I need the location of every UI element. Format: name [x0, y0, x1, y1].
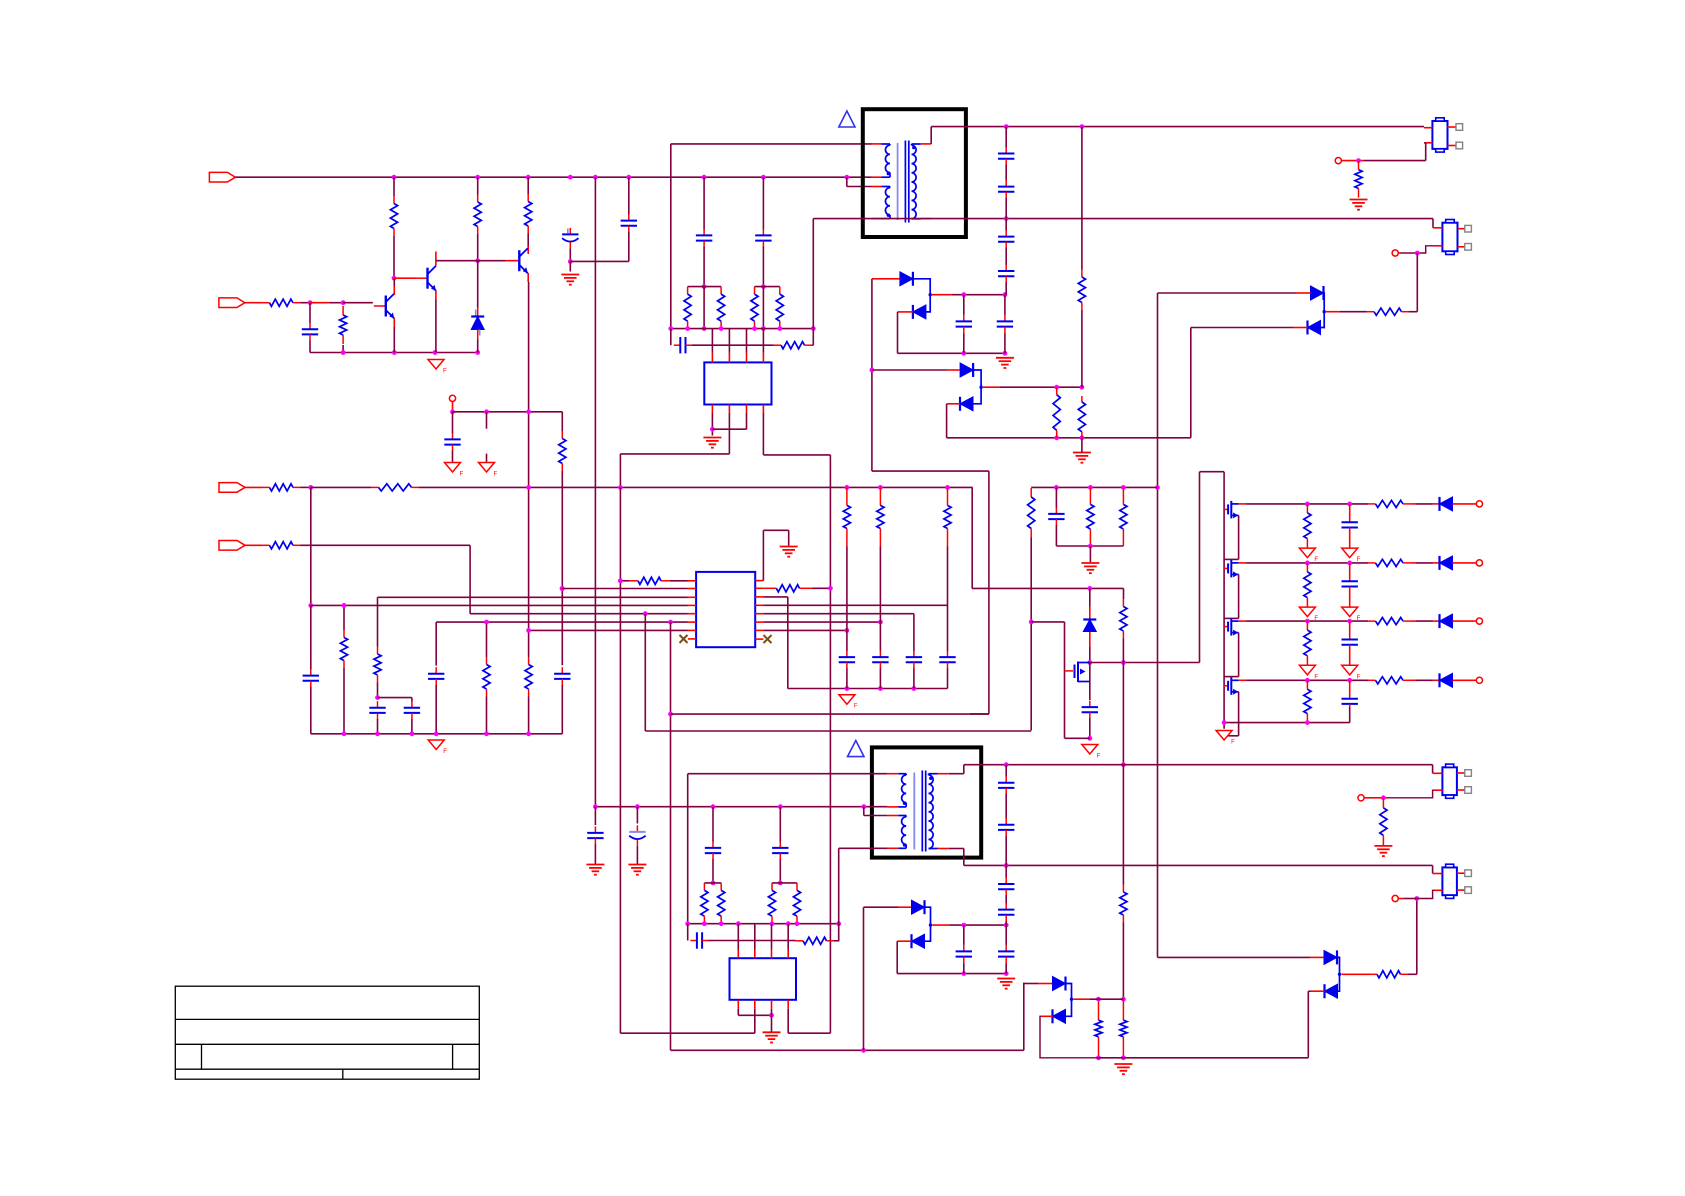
wire node: [1000, 386, 1082, 388]
diode: [1440, 614, 1453, 628]
pin U3.1t: [737, 950, 739, 958]
wire stack2: [1005, 794, 1007, 819]
power ground F: [1299, 548, 1318, 563]
resistor R42: [796, 937, 835, 944]
wire: [1411, 620, 1417, 622]
wire: [477, 234, 479, 261]
wire: [393, 278, 395, 286]
svg-text:F: F: [494, 472, 498, 478]
junction net1: [761, 175, 766, 180]
pin CN3 sq1: [1457, 772, 1465, 774]
capacitor C21: [554, 667, 570, 685]
pin cap: [1349, 680, 1351, 695]
wire stack2: [1005, 895, 1007, 903]
power ground F: [445, 463, 464, 478]
wire row6L: [436, 621, 688, 623]
pin CN3.1: [1433, 772, 1443, 774]
capacitor C25: [906, 651, 922, 669]
pin U2.L5: [688, 613, 696, 615]
wire x687 to bus: [687, 774, 689, 924]
wire bar R2: [772, 882, 797, 884]
resistor R32: [1028, 488, 1035, 538]
wire net1 main: [235, 176, 871, 178]
wire D5 feed: [1158, 292, 1297, 294]
wire CN1 pin2: [1424, 142, 1426, 144]
wire: [712, 859, 714, 883]
junction: [1054, 435, 1059, 440]
wire: [636, 807, 638, 824]
transformer T1 windings: [882, 141, 921, 223]
junction: [392, 350, 397, 355]
wire row: [1246, 679, 1368, 681]
wire: [411, 719, 413, 734]
wire: [1199, 472, 1201, 663]
resistor R44: [1380, 798, 1387, 846]
wire: [711, 329, 713, 353]
wire row5R: [763, 613, 914, 615]
wire: [378, 697, 412, 699]
capacitor C15: [998, 230, 1014, 248]
junction: [308, 300, 313, 305]
wire: [1089, 588, 1091, 606]
wire source loop2: [1224, 735, 1239, 737]
wire row: [1246, 562, 1368, 564]
resistor: [1368, 677, 1411, 684]
wire: [1404, 898, 1417, 900]
wire: [963, 295, 965, 315]
capacitor C35: [998, 945, 1014, 963]
wire: [1308, 990, 1310, 992]
terminal circle: [449, 395, 455, 401]
diode pair link: [925, 907, 931, 941]
wire stub2: [486, 454, 488, 462]
pin T1.3: [872, 186, 882, 188]
wire stack2: [1005, 765, 1007, 777]
wire: [712, 428, 746, 430]
wire: [703, 247, 705, 287]
wire: [628, 232, 630, 262]
wire: [300, 302, 310, 304]
connector CN3: [1442, 764, 1457, 798]
resistor R27: [629, 577, 670, 584]
wire: [737, 1009, 739, 1016]
wire: [1425, 143, 1427, 161]
junction: [912, 686, 917, 691]
pin D8 anode: [1089, 632, 1091, 647]
wire node out: [1073, 998, 1090, 1000]
wire: [896, 941, 898, 973]
wire source loop: [1238, 515, 1240, 559]
wire to circle: [1398, 898, 1404, 900]
wire: [897, 312, 899, 353]
wire: [1364, 160, 1426, 162]
junction: [961, 292, 966, 297]
wire y1050: [671, 1049, 1024, 1051]
pin CN3.2: [1435, 789, 1443, 791]
junction: [308, 603, 313, 608]
wire: [301, 486, 311, 488]
transistor Q3: [507, 248, 528, 273]
junction: [1003, 351, 1008, 356]
wire source loop: [1238, 574, 1240, 618]
capacitor C11: [956, 315, 972, 333]
wire x620 mid: [619, 487, 621, 1033]
pin U3.3b: [771, 1000, 773, 1009]
wire: [728, 413, 730, 454]
wire drive rail: [1031, 486, 1157, 488]
wire: [779, 807, 781, 842]
pin U2.R4: [755, 604, 763, 606]
pin D17 cathode: [1311, 990, 1325, 992]
pin diode: [1433, 620, 1440, 622]
wire: [452, 451, 454, 462]
wire: [620, 580, 629, 582]
power ground F: [839, 695, 858, 710]
wire: [963, 333, 965, 353]
pin U1.4t: [762, 353, 764, 363]
wire jog T1 pin3 h: [847, 186, 872, 188]
wire row3R: [763, 596, 787, 598]
earth ground: [703, 438, 721, 448]
pin D2 cathode: [898, 311, 913, 313]
capacitor C27: [1048, 507, 1064, 525]
wire: [561, 471, 563, 665]
junction: [1305, 619, 1310, 624]
wire stack2: [1005, 921, 1007, 925]
wire T2 p1 feed: [688, 773, 888, 775]
pin D3 anode: [947, 369, 960, 371]
diode D8: [1083, 620, 1096, 632]
pin U2.R3: [755, 596, 763, 598]
wire: [703, 287, 705, 329]
junction: [1347, 502, 1352, 507]
junction: [433, 350, 438, 355]
wire: [762, 287, 764, 329]
junction: [1004, 971, 1009, 976]
junction bus2: [770, 921, 775, 926]
resistor R9: [684, 287, 691, 329]
junction bus: [526, 731, 531, 736]
wire x813: [812, 219, 814, 346]
wire: [670, 580, 688, 582]
pin U3.4t: [787, 950, 789, 958]
junction row2L: [560, 586, 565, 591]
wire: [477, 261, 479, 308]
wire: [1416, 503, 1433, 505]
wire jog p3: [863, 807, 865, 816]
wire: [1123, 588, 1125, 599]
resistor R7: [262, 299, 301, 306]
transformer T2 box: [872, 747, 981, 857]
mosfet Q9: [1224, 677, 1239, 695]
capacitor C31: [705, 841, 721, 859]
wire: [1081, 310, 1083, 387]
junction: [711, 804, 716, 809]
pin CN4 sq2: [1457, 889, 1465, 891]
earth ground: [628, 865, 646, 875]
wire: [963, 963, 965, 974]
wire: [1340, 311, 1367, 313]
zener diode D11: [471, 308, 484, 340]
wire rail fb b: [419, 486, 973, 488]
wire: [1416, 679, 1433, 681]
polarized capacitor C6: [562, 228, 578, 248]
resistor R37: [1095, 999, 1102, 1058]
earth ground: [763, 1032, 781, 1042]
junction: [828, 586, 833, 591]
junction: [1004, 124, 1009, 129]
wire: [636, 846, 638, 864]
junction: [945, 485, 950, 490]
resistor R40: [768, 883, 775, 924]
diode D12: [912, 900, 925, 914]
capacitor C17: [303, 669, 319, 687]
wire col 310: [310, 487, 312, 605]
connector CN4: [1442, 864, 1457, 898]
wire node out: [932, 924, 950, 926]
wire stack: [1005, 198, 1007, 231]
diode: [1440, 556, 1453, 570]
junction: [961, 971, 966, 976]
wire stack: [1005, 165, 1007, 181]
wire stack: [1005, 282, 1007, 295]
pin U1.4b: [762, 405, 764, 414]
junction bus: [685, 326, 690, 331]
wire: [377, 719, 379, 734]
input tag 2: [219, 298, 245, 308]
wire: [771, 1009, 773, 1032]
pin Q3 collector: [527, 246, 529, 254]
pin U2.L3: [688, 596, 696, 598]
wire rc mid: [692, 344, 774, 346]
diode: [1440, 497, 1453, 511]
pin T1.5: [921, 143, 931, 145]
capacitor C8: [696, 229, 712, 247]
wire: [1055, 487, 1057, 508]
resistor R26: [559, 431, 566, 471]
capacitor C10: [674, 337, 692, 353]
junction: [1305, 720, 1310, 725]
wire x620 upper: [619, 454, 621, 488]
diode pair link: [1321, 293, 1325, 328]
wire: [670, 329, 672, 346]
junction net1: [702, 175, 707, 180]
terminal circle: [1392, 895, 1398, 901]
junction: [1004, 762, 1009, 767]
diode pair link: [1066, 984, 1072, 1017]
wire: [1122, 663, 1124, 765]
junction: [711, 881, 716, 886]
wire: [711, 413, 713, 436]
wire row7R: [763, 629, 847, 631]
pin U1.3b: [746, 405, 748, 414]
pin CN4 sq1: [1457, 872, 1465, 874]
pin cap: [1349, 504, 1351, 519]
junction bus: [484, 731, 489, 736]
pin: [245, 486, 262, 488]
wire CN2 pin1 jog: [1432, 219, 1434, 228]
wire: [762, 177, 764, 229]
wire gnd bar: [1056, 545, 1123, 547]
pin U3.1b: [737, 1000, 739, 1009]
resistor: [1368, 500, 1411, 507]
pin U2.R2: [755, 587, 763, 589]
wire: [1024, 983, 1038, 985]
wire: [343, 605, 345, 630]
pin U3.3t: [771, 950, 773, 958]
pin drain: [1239, 620, 1247, 622]
wire: [946, 404, 948, 438]
pin cap2: [1349, 589, 1351, 606]
capacitor C20: [428, 667, 444, 685]
IC U1: [704, 362, 771, 404]
wire: [913, 614, 915, 651]
wire: [477, 340, 479, 353]
resistor R16: [1078, 270, 1085, 311]
pin T2.5: [938, 773, 949, 775]
resistor R25: [525, 657, 532, 697]
wire cap2 bottom link: [570, 260, 629, 262]
wire y731: [645, 730, 1031, 732]
wire row7L: [529, 629, 688, 631]
junction: [1121, 1055, 1126, 1060]
capacitor C38: [998, 878, 1014, 896]
wire row6R: [763, 621, 880, 623]
wire row4R: [763, 604, 947, 606]
wire: [628, 177, 630, 214]
pin T2.4: [887, 847, 898, 849]
junction bus2: [795, 921, 800, 926]
svg-text:F: F: [1314, 674, 1318, 680]
diode D3: [960, 363, 973, 377]
input tag 3: [219, 483, 245, 493]
wire source loop: [1238, 692, 1240, 736]
resistor R4: [390, 196, 397, 236]
resistor R19: [262, 484, 301, 491]
earth ground: [1081, 563, 1099, 573]
wire: [788, 530, 790, 545]
junction bus2: [685, 921, 690, 926]
wire D5 net down: [1157, 293, 1159, 957]
wire CN3 pin2 jog: [1388, 790, 1435, 798]
wire: [737, 924, 739, 950]
wire: [872, 470, 989, 472]
pin U2.R7: [755, 629, 763, 631]
junction: [845, 628, 850, 633]
power ground F: [1299, 607, 1318, 622]
pin diode: [1433, 562, 1440, 564]
pin Q1 collector: [393, 286, 395, 295]
wire: [898, 352, 1005, 354]
junction: [450, 409, 455, 414]
resistor R10: [718, 287, 725, 329]
capacitor C39: [998, 903, 1014, 921]
wire M5 drain row: [1090, 662, 1200, 664]
wire jog T1 pin3 v: [846, 177, 848, 186]
wire rc2 end: [834, 940, 839, 942]
transistor Q1: [374, 294, 395, 319]
output circle: [1476, 560, 1482, 566]
junction: [1305, 678, 1310, 683]
capacitor C33: [690, 932, 708, 948]
junction: [1054, 385, 1059, 390]
wire: [879, 668, 881, 688]
pin T2.1: [887, 773, 898, 775]
junction: [778, 881, 783, 886]
pin T2.6: [938, 848, 949, 850]
pin Da anode: [898, 906, 912, 908]
diode: [1440, 673, 1453, 687]
wire T2 p5 out: [949, 773, 964, 775]
wire node out2: [950, 924, 1006, 926]
wire node out: [952, 294, 1005, 296]
earth ground: [1114, 1064, 1132, 1074]
wire: [310, 687, 312, 734]
wire gnd rail: [310, 352, 478, 354]
pin: [1453, 503, 1477, 505]
output circle: [1476, 677, 1482, 683]
junction: [668, 712, 673, 717]
resistor R20: [371, 484, 419, 491]
junction: [635, 804, 640, 809]
wire to circle: [1364, 797, 1388, 799]
pin CN2.1: [1433, 227, 1442, 229]
junction: [308, 485, 313, 490]
wire: [309, 341, 311, 353]
connector CN2: [1442, 220, 1457, 255]
pin U2.R6: [755, 621, 763, 623]
output circle: [1476, 618, 1482, 624]
terminal circle: [1392, 250, 1398, 256]
power ground F: [1299, 665, 1318, 680]
IC U3: [730, 958, 797, 1000]
junction: [1054, 485, 1059, 490]
capacitor C26: [939, 651, 955, 669]
resistor R24: [483, 657, 490, 697]
wire stack2: [1005, 925, 1007, 945]
wire bar R: [755, 286, 780, 288]
wire to circle: [1342, 160, 1365, 162]
no-connect X: [680, 635, 688, 643]
transformer T2 windings: [898, 771, 937, 852]
junction: [778, 804, 783, 809]
wire: [1408, 973, 1417, 975]
resistor R28: [763, 585, 812, 592]
IC U2 main controller: [696, 572, 755, 647]
wire: [728, 329, 730, 353]
polarized capacitor C30: [629, 825, 645, 845]
junction net1: [392, 175, 397, 180]
power ground F: [1342, 665, 1361, 680]
junction: [1029, 620, 1034, 625]
warning triangle 2: [848, 741, 865, 757]
wire: [1023, 983, 1025, 1051]
pin T1.4: [872, 218, 882, 220]
junction: [702, 284, 707, 289]
junction: [878, 620, 883, 625]
junction row7L: [526, 628, 531, 633]
svg-text:F: F: [443, 369, 447, 375]
junction: [342, 603, 347, 608]
pin U1.2t: [728, 353, 730, 363]
junction bus: [777, 326, 782, 331]
capacitor C5: [302, 323, 318, 341]
junction: [1080, 124, 1085, 129]
resistor R8: [340, 306, 347, 344]
wire: [846, 547, 848, 652]
junction bus2: [702, 921, 707, 926]
diode D15: [1053, 1009, 1066, 1023]
